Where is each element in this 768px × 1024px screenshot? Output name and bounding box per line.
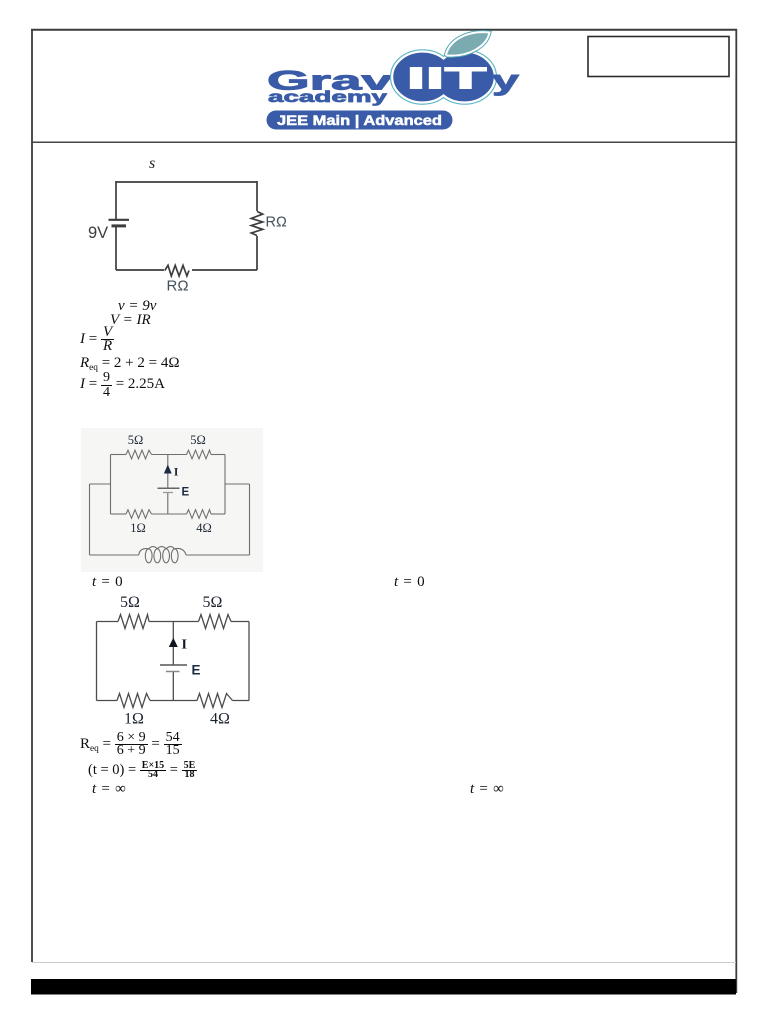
- logo: leaf: [446, 32, 490, 56]
- svg-text:RΩ: RΩ: [167, 278, 189, 295]
- resistor 5Ω right (c2): [187, 450, 212, 459]
- svg-text:I: I: [174, 465, 179, 479]
- svg-text:I: I: [182, 638, 187, 653]
- resistor 1Ω (c2): [126, 510, 152, 519]
- arrow I (c2): [164, 465, 172, 474]
- equation V = IR: [110, 312, 151, 329]
- label t = ∞ (left): [92, 781, 126, 798]
- svg-text:IIT: IIT: [407, 61, 487, 96]
- svg-text:4Ω: 4Ω: [210, 711, 230, 728]
- svg-text:1Ω: 1Ω: [130, 521, 146, 535]
- footer black bar: [31, 979, 736, 995]
- svg-text:5Ω: 5Ω: [190, 433, 206, 447]
- resistor 5Ω right (c3): [199, 615, 232, 629]
- wire: c3 top right: [231, 621, 249, 623]
- svg-text:academy: academy: [268, 89, 388, 106]
- wire: c3 bottom left: [97, 700, 118, 702]
- wire: circuit1 left upper: [115, 181, 117, 220]
- wire: c3 top mid: [149, 621, 199, 623]
- equation v = 9v: [118, 298, 156, 315]
- equation (t=0) = Ex15/54 = 5E/18: [88, 760, 197, 780]
- circuit2 background: [81, 428, 263, 572]
- resistor 4Ω (c3): [197, 694, 233, 708]
- wire: circuit1 right upper: [256, 181, 258, 211]
- wire: circuit1 right lower: [256, 236, 258, 270]
- svg-text:RΩ: RΩ: [266, 215, 287, 231]
- wire: c2 bottom mid: [152, 513, 187, 515]
- wire: c2 outer bottom left: [90, 554, 139, 556]
- battery E short plate (c2): [163, 492, 173, 494]
- wire: c3 left side: [96, 622, 98, 701]
- wire: c3 middle branch mid: [172, 647, 174, 665]
- resistor 5Ω left (c3): [118, 615, 149, 629]
- wire: c2 bottom right: [211, 513, 225, 515]
- svg-text:E: E: [182, 487, 190, 499]
- equation I = 9/4 = 2.25A: [80, 369, 165, 399]
- wire: c2 middle branch mid: [167, 474, 169, 489]
- battery E long plate (c2): [158, 487, 180, 489]
- battery E short plate (c3): [166, 671, 180, 673]
- wire: c2 outer bottom right: [186, 554, 249, 556]
- battery E long plate (c3): [160, 664, 187, 666]
- wire: c2 outer right horizontal: [225, 483, 250, 485]
- wire: c3 top left: [97, 621, 119, 623]
- wire: c2 middle branch upper: [167, 455, 169, 467]
- wire: circuit1 bottom left: [116, 269, 164, 271]
- page border left: [31, 29, 33, 962]
- resistor 5Ω left (c2): [126, 450, 152, 459]
- svg-text:y: y: [492, 65, 520, 96]
- resistor R (bottom, horizontal): [165, 265, 189, 276]
- wire: c3 bottom right: [233, 700, 250, 702]
- wire: c3 right side: [248, 622, 250, 701]
- wire: c2 top left: [111, 454, 127, 456]
- svg-text:5Ω: 5Ω: [120, 594, 140, 611]
- wire: c3 bottom mid: [150, 700, 197, 702]
- wire: c2 top right: [211, 454, 225, 456]
- header empty box top right: [588, 37, 729, 77]
- header separator line: [31, 141, 737, 143]
- arrow I (c3): [169, 638, 178, 647]
- svg-text:1Ω: 1Ω: [124, 711, 144, 728]
- svg-text:s: s: [149, 155, 155, 172]
- wire: circuit1 top: [116, 181, 257, 183]
- wire: circuit1 left lower: [115, 226, 117, 270]
- wire: c3 middle branch lower: [172, 672, 174, 701]
- label t = 0 (left): [92, 574, 123, 591]
- wire: c2 outer left vertical: [89, 484, 91, 555]
- svg-text:9V: 9V: [88, 224, 108, 242]
- logo: JEE Main | Advanced pill: [267, 111, 453, 130]
- wire: c2 left side: [110, 455, 112, 515]
- wire: c2 outer right vertical: [249, 484, 251, 555]
- resistor R (right, vertical): [251, 211, 262, 235]
- battery 9V short plate: [112, 224, 127, 227]
- resistor 1Ω (c3): [117, 694, 150, 708]
- svg-text:5Ω: 5Ω: [203, 594, 223, 611]
- wire: c3 middle branch upper: [172, 622, 174, 640]
- equation I = V/R: [80, 325, 114, 353]
- logo: Grav text: [267, 66, 393, 96]
- label t = 0 (right): [394, 574, 425, 591]
- wire: circuit1 bottom right: [192, 269, 257, 271]
- page border right: [735, 29, 737, 993]
- inductor L (c2): [145, 549, 152, 563]
- equation Req = 6x9/6+9 = 54/15: [80, 731, 182, 762]
- logo: apple (blue with teal outline): [392, 52, 495, 103]
- wire: c2 top mid: [152, 454, 187, 456]
- wire: c2 bottom left: [111, 513, 127, 515]
- wire: c2 right side: [224, 455, 226, 515]
- svg-text:JEE Main | Advanced: JEE Main | Advanced: [277, 113, 442, 128]
- svg-text:4Ω: 4Ω: [196, 521, 212, 535]
- footer light gray line: [32, 962, 736, 964]
- svg-text:5Ω: 5Ω: [128, 433, 144, 447]
- resistor 4Ω (c2): [187, 510, 212, 519]
- svg-text:E: E: [192, 663, 201, 678]
- battery 9V long plate: [109, 219, 130, 221]
- page border top: [31, 29, 737, 31]
- label t = ∞ (right): [470, 781, 504, 798]
- wire: c2 middle branch lower: [167, 493, 169, 515]
- equation Req = 2 + 2 = 4Ω: [80, 355, 179, 373]
- wire: c2 outer left horizontal: [90, 483, 111, 485]
